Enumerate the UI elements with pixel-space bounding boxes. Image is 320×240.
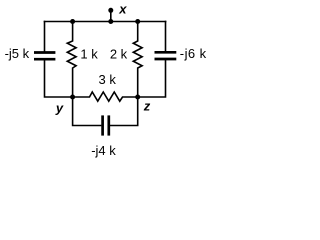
- capacitor -j6 k: [155, 52, 177, 59]
- terminal dot node x: [108, 8, 113, 13]
- svg-text:-j5 k: -j5 k: [5, 46, 30, 61]
- junction dot top of 2 k: [135, 19, 140, 24]
- wire left branch lower: [45, 59, 73, 97]
- svg-text:3 k: 3 k: [99, 72, 117, 87]
- capacitor -j4 k: [103, 115, 109, 135]
- junction dot below node x: [108, 19, 113, 24]
- resistor R 2 k: [133, 21, 142, 97]
- svg-text:1 k: 1 k: [80, 47, 98, 62]
- wire from node y down to -j4 k branch: [73, 97, 102, 126]
- node y junction dot: [70, 95, 75, 100]
- wire left branch upper: [44, 21, 46, 53]
- node z junction dot: [135, 95, 140, 100]
- svg-text:z: z: [143, 98, 151, 113]
- wire right branch upper: [165, 21, 167, 52]
- capacitor -j5 k: [34, 53, 55, 60]
- wire right branch lower: [138, 59, 166, 97]
- wire top rail: [44, 21, 167, 23]
- resistor R 3 k: [73, 92, 138, 101]
- resistor R 1 k: [67, 21, 76, 97]
- wire from -j4 k to node z: [110, 97, 138, 126]
- svg-text:-j4 k: -j4 k: [91, 143, 116, 158]
- svg-text:y: y: [55, 100, 64, 115]
- terminal stub of node x: [110, 10, 112, 21]
- svg-text:x: x: [118, 1, 127, 16]
- junction dot top of 1 k: [70, 19, 75, 24]
- svg-text:2 k: 2 k: [110, 47, 128, 62]
- svg-text:-j6 k: -j6 k: [180, 46, 207, 61]
